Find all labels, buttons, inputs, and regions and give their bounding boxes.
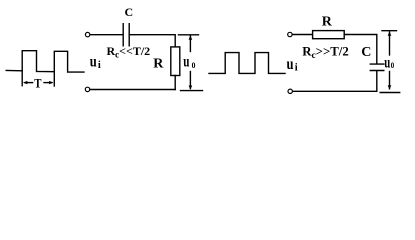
u_o arrow left: shaft upper	[189, 36, 191, 52]
wire: right bottom	[293, 90, 377, 92]
terminal: left top	[85, 32, 89, 36]
wire: right input top	[292, 34, 312, 36]
u_o left arrowhead down	[189, 86, 193, 90]
u_o arrow left: top bar	[179, 34, 199, 36]
terminal: right top	[288, 32, 292, 36]
svg-text:T: T	[34, 76, 41, 91]
T arrowhead left	[23, 81, 28, 84]
wire: resistor to bottom	[174, 76, 176, 90]
T dimension arrow left	[25, 82, 33, 84]
wire: resistor to cap branch	[344, 35, 377, 64]
T dimension arrow right	[44, 82, 52, 84]
u_o arrow right: shaft lower	[389, 72, 391, 89]
u_o arrow left: shaft lower	[189, 72, 191, 89]
u_o right arrowhead up	[388, 31, 392, 35]
u_o arrow right: bottom bar	[380, 92, 400, 94]
u_o arrow left: bottom bar	[181, 90, 203, 92]
u_o arrow right: top bar	[382, 30, 397, 32]
svg-text:C: C	[125, 5, 134, 19]
capacitor C1 plates	[123, 24, 129, 46]
svg-text:R: R	[153, 57, 164, 72]
u_o left arrowhead up	[189, 35, 193, 39]
u_o arrow right: shaft upper	[389, 32, 391, 55]
svg-text:R: R	[322, 15, 333, 30]
resistor R1 body	[171, 47, 180, 76]
svg-text:Rc<<T/2: Rc<<T/2	[107, 44, 151, 60]
input square wave left	[6, 51, 84, 72]
svg-text:uo: uo	[183, 54, 195, 71]
wire: cap to bottom	[376, 71, 378, 91]
wire: left input top	[90, 34, 122, 36]
svg-text:C: C	[361, 45, 371, 60]
period tick left	[21, 71, 23, 86]
terminal: left bottom	[85, 87, 89, 91]
u_o right arrowhead down	[388, 85, 392, 89]
wire: left bottom	[90, 89, 175, 91]
capacitor C2 plates	[370, 64, 384, 70]
period tick right	[53, 72, 55, 86]
svg-text:uo: uo	[384, 54, 394, 71]
terminal: right bottom	[288, 89, 292, 93]
resistor R2 body	[313, 31, 345, 39]
wire: cap to resistor branch	[130, 35, 175, 47]
T arrowhead right	[49, 81, 54, 84]
input square wave right	[209, 53, 285, 74]
